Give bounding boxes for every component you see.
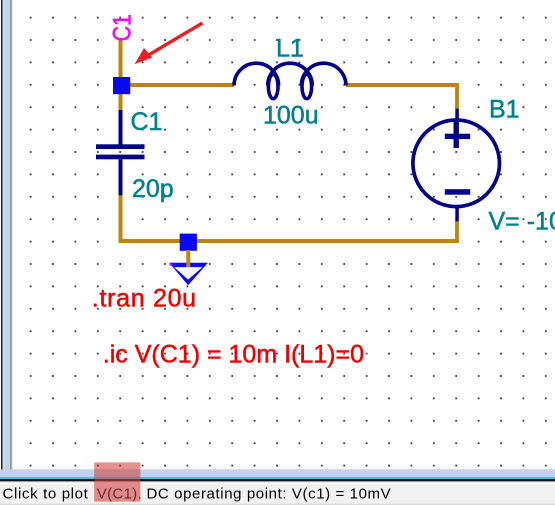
svg-text:Click to plot: Click to plot — [3, 486, 89, 503]
svg-text:20p: 20p — [132, 175, 174, 203]
svg-text:100u: 100u — [263, 102, 319, 130]
capacitor C1 — [96, 110, 145, 195]
svg-text:C1: C1 — [109, 14, 137, 41]
wire C1 bottom to bottom wire (left vertical lower) — [119, 194, 123, 243]
svg-text:.tran 20u: .tran 20u — [92, 285, 197, 313]
voltage source B1 — [413, 109, 500, 222]
ground — [169, 263, 208, 286]
inductor L1 — [234, 63, 346, 99]
svg-text:.ic V(C1) = 10m I(L1)=0: .ic V(C1) = 10m I(L1)=0 — [103, 341, 364, 369]
wire ground stub — [186, 250, 190, 267]
svg-text:V= -10m: V= -10m — [489, 208, 555, 236]
wire from rotated C1 label to top node (left vertical upper) — [119, 39, 123, 85]
wire top horizontal right (L1 to corner) — [346, 83, 459, 87]
wire bottom horizontal — [119, 239, 459, 243]
annotation arrow (red) — [135, 23, 203, 64]
svg-text:DC operating point: V(c1) = 10: DC operating point: V(c1) = 10mV — [147, 486, 392, 503]
wire top node to C1 top lead (left vertical) — [119, 85, 123, 111]
wire B1 bottom to corner (right vertical lower) — [455, 221, 459, 243]
svg-text:L1: L1 — [276, 35, 304, 63]
node junction (top left) — [113, 77, 130, 94]
wire top horizontal left (node to L1) — [119, 83, 235, 87]
wire right vertical (corner to B1 top) — [455, 83, 459, 109]
node junction (bottom) — [180, 234, 197, 251]
svg-text:C1: C1 — [131, 108, 163, 136]
svg-text:B1: B1 — [489, 96, 520, 124]
